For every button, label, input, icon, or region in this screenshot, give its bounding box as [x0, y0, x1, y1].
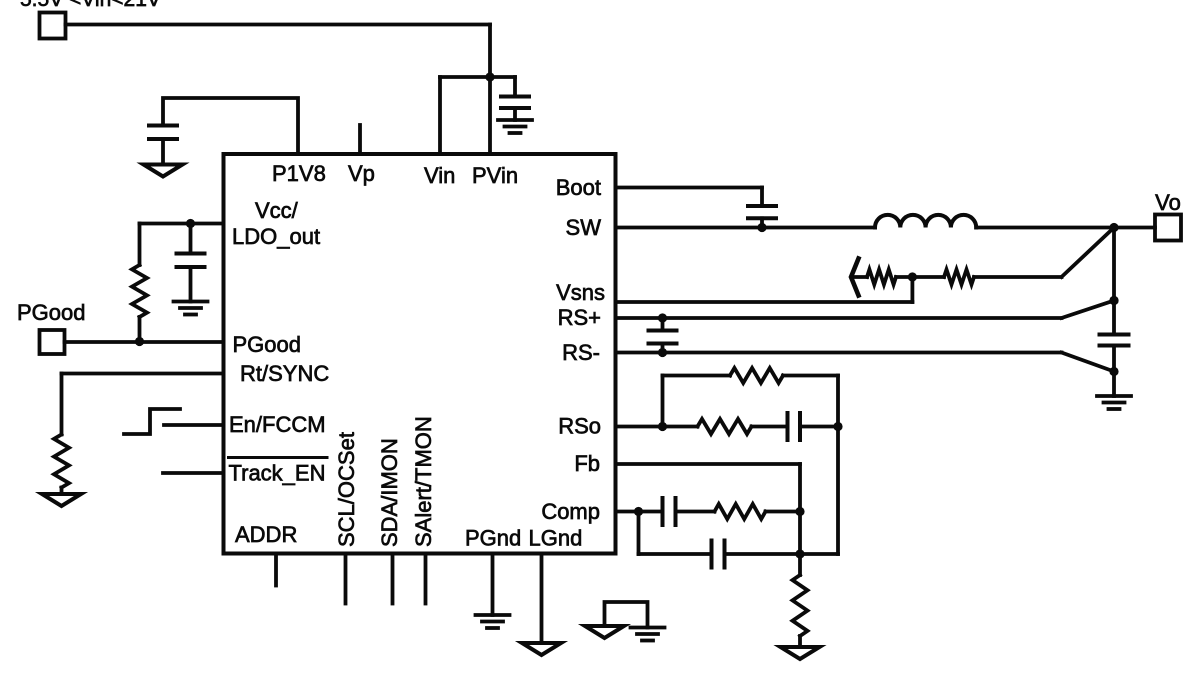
svg-text:ADDR: ADDR — [235, 522, 297, 547]
svg-text:SCL/OCSet: SCL/OCSet — [334, 432, 359, 547]
svg-text:P1V8: P1V8 — [272, 161, 326, 186]
svg-text:Boot: Boot — [556, 175, 601, 200]
svg-text:RS+: RS+ — [558, 305, 601, 330]
svg-text:5.5V <Vin<21V: 5.5V <Vin<21V — [20, 0, 161, 11]
svg-text:PVin: PVin — [472, 163, 518, 188]
svg-text:RS-: RS- — [562, 340, 600, 365]
svg-text:PGnd: PGnd — [465, 526, 521, 551]
svg-text:Vsns: Vsns — [556, 280, 605, 305]
svg-text:Vcc/: Vcc/ — [255, 198, 299, 223]
svg-text:LGnd: LGnd — [529, 526, 583, 551]
svg-text:SAlert/TMON: SAlert/TMON — [411, 416, 436, 547]
svg-text:PGood: PGood — [233, 332, 302, 357]
svg-text:Fb: Fb — [574, 451, 600, 476]
svg-text:Track_EN: Track_EN — [229, 461, 326, 486]
svg-text:LDO_out: LDO_out — [232, 224, 320, 249]
svg-text:Comp: Comp — [541, 499, 600, 524]
svg-text:SW: SW — [566, 215, 602, 240]
svg-text:Rt/SYNC: Rt/SYNC — [240, 361, 329, 386]
svg-text:Vo: Vo — [1155, 190, 1181, 215]
svg-text:SDA/IMON: SDA/IMON — [377, 438, 402, 547]
svg-text:Vin: Vin — [424, 163, 455, 188]
svg-text:En/FCCM: En/FCCM — [229, 412, 326, 437]
svg-text:RSo: RSo — [558, 414, 601, 439]
svg-text:Vp: Vp — [348, 161, 375, 186]
svg-text:PGood: PGood — [17, 300, 86, 325]
